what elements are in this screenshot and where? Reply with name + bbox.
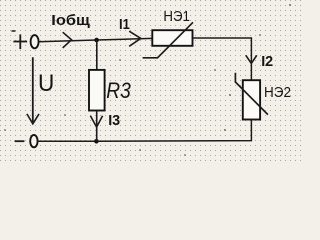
plus terminal sign xyxy=(13,34,27,49)
voltage arrow U line xyxy=(32,57,34,123)
bottom terminal circle xyxy=(30,135,37,147)
arrow I2 xyxy=(246,55,257,63)
nonlinear element NE1 body xyxy=(152,30,192,46)
wire middle branch upper xyxy=(96,40,98,70)
minus terminal sign xyxy=(15,140,25,142)
arrow I1 on top wire xyxy=(129,31,141,46)
svg-text:НЭ1: НЭ1 xyxy=(163,9,190,25)
wire NE1 to right corner and down xyxy=(193,38,252,80)
svg-text:U: U xyxy=(38,70,54,97)
NE1 diagonal stroke xyxy=(143,22,193,58)
arrow I3 xyxy=(90,116,102,127)
wire middle branch lower xyxy=(96,111,98,142)
NE2 diagonal stroke xyxy=(235,73,268,115)
scan smudge artifact xyxy=(12,30,16,32)
svg-text:I3: I3 xyxy=(108,113,120,129)
wire bottom from NE2 to minus terminal xyxy=(37,120,251,142)
svg-text:I1: I1 xyxy=(119,17,130,33)
nonlinear element NE2 body xyxy=(243,80,260,119)
arrow Iobshch on top wire xyxy=(63,32,72,48)
darker stray grid dots xyxy=(4,4,291,156)
svg-text:НЭ2: НЭ2 xyxy=(264,85,291,101)
top terminal circle xyxy=(31,35,39,48)
paper background with dot grid xyxy=(0,0,303,164)
resistor R3 body xyxy=(89,70,105,111)
svg-text:R3: R3 xyxy=(106,78,131,103)
svg-text:Iобщ: Iобщ xyxy=(51,12,90,29)
voltage arrow U head xyxy=(27,114,39,124)
node junction bottom xyxy=(94,139,99,144)
node junction top xyxy=(94,38,99,43)
svg-text:I2: I2 xyxy=(261,54,273,70)
wire top from terminal to NE1 xyxy=(39,38,153,41)
